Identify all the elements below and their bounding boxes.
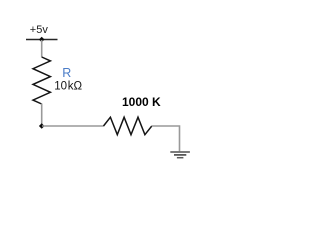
svg-text:10kΩ: 10kΩ [54, 81, 82, 93]
svg-text:+5v: +5v [30, 24, 49, 36]
svg-text:1000 K: 1000 K [122, 95, 161, 109]
svg-text:R: R [62, 66, 71, 80]
